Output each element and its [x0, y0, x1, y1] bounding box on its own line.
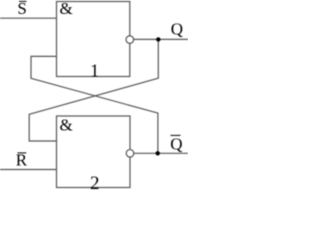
svg-text:R: R — [16, 150, 28, 169]
svg-text:1: 1 — [90, 61, 99, 81]
svg-text:2: 2 — [90, 173, 100, 193]
svg-text:&: & — [60, 116, 73, 135]
svg-text:S: S — [17, 0, 26, 18]
svg-text:&: & — [60, 0, 73, 18]
svg-text:Q: Q — [170, 134, 182, 153]
svg-text:Q: Q — [171, 20, 183, 39]
